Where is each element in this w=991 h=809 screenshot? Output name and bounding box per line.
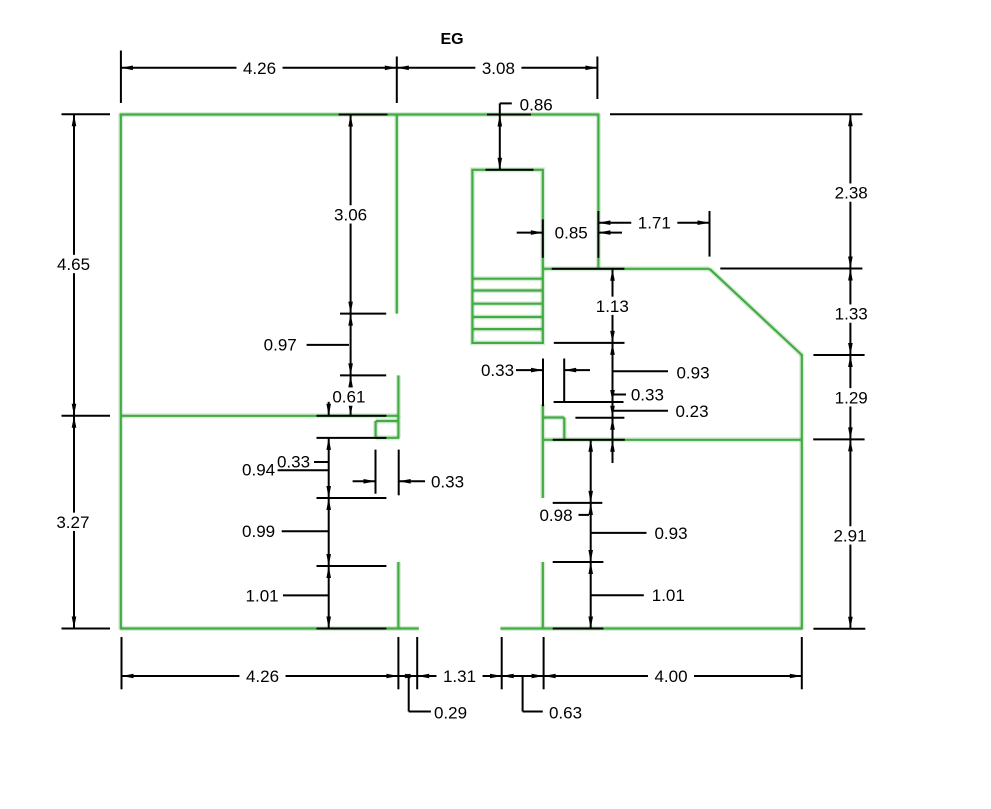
extension tick y=417.8: [575, 417, 624, 419]
svg-text:0.93: 0.93: [676, 364, 709, 383]
extension tick y=628.5 chain C (overlay): [553, 628, 604, 630]
label 0.29: [434, 704, 467, 723]
arrow 0.85 right: [598, 230, 622, 235]
svg-text:1.71: 1.71: [638, 214, 671, 233]
door jamb left: bottom edge: [376, 435, 400, 440]
svg-text:1.29: 1.29: [835, 388, 868, 407]
svg-text:0.99: 0.99: [242, 522, 275, 541]
extension tick y=313.6: [340, 313, 386, 315]
dimension line 0.94 segment: [326, 438, 331, 498]
dimension line 3.08 top: [397, 66, 598, 71]
leader 0.23 chain D: [613, 410, 669, 412]
dimension line 2.38 right: [848, 114, 853, 268]
label 0.33 door-left: [431, 472, 464, 491]
leader 0.94: [278, 469, 329, 471]
dimension line 2.91 right: [848, 439, 853, 628]
stairwell rectangle: [472, 170, 542, 343]
label 0.33 stair: [481, 361, 514, 380]
svg-text:0.33: 0.33: [631, 386, 664, 405]
label 0.23 chain D: [675, 402, 708, 421]
extension tick bottom (x=801.8): [801, 637, 803, 689]
extension tick left at y=114.2: [62, 113, 111, 115]
label 0.94: [242, 461, 275, 480]
svg-text:0.85: 0.85: [555, 224, 588, 243]
extension tick y=437.9: [317, 437, 387, 439]
dimension line 3.27 left: [72, 416, 77, 629]
label 1.31 bottom: [436, 667, 482, 686]
leader 0.97: [307, 344, 349, 346]
leader 0.93 chain C: [591, 532, 647, 534]
overlay tick y=439.8 chain D: [553, 439, 625, 441]
label 0.61: [326, 387, 372, 406]
dimension line 4.00 bottom: [544, 674, 802, 679]
svg-text:1.01: 1.01: [652, 586, 685, 605]
extension tick right at y=628.7: [813, 628, 865, 630]
extension tick right at y=355: [813, 354, 864, 356]
chain D small arrows 0.23: [610, 406, 615, 452]
svg-text:4.26: 4.26: [246, 667, 279, 686]
dimension line 1.13: [610, 269, 615, 343]
wall: corridor-left upper segment (x=396.8): [394, 115, 399, 314]
svg-text:4.65: 4.65: [57, 255, 90, 274]
label 1.13: [589, 297, 635, 316]
arrow pair 0.33 stair: [516, 368, 590, 373]
label 0.99: [242, 522, 275, 541]
svg-text:4.00: 4.00: [654, 667, 687, 686]
label 0.93 chain C: [654, 524, 687, 543]
svg-text:0.33: 0.33: [481, 361, 514, 380]
extension tick y=502.9: [553, 502, 603, 504]
overlay tick y=268.8 chain D: [552, 268, 625, 270]
svg-text:0.94: 0.94: [242, 461, 275, 480]
extension tick bottom (x=398.4): [397, 637, 399, 689]
dimension line 0.61: [348, 375, 353, 415]
svg-text:0.98: 0.98: [539, 506, 572, 525]
extension tick y=562: [553, 561, 604, 563]
leader 0.86: [500, 103, 512, 114]
vertical ext overlay x=598.4 (wall): [597, 211, 599, 258]
wall: corridor-right lower segment (x=542.8): [540, 562, 545, 629]
extension tick x=709.5: [709, 211, 711, 257]
label 0.97: [264, 336, 297, 355]
wall: bottom left-unit (y=628.5): [121, 626, 419, 631]
door jamb left: left edge: [373, 421, 378, 438]
label 3.06: [328, 205, 374, 224]
wall: outer right (x=801.8): [799, 354, 804, 630]
svg-text:0.93: 0.93: [654, 524, 687, 543]
label 2.91: [827, 526, 873, 545]
overlay tick on top wall chain A: [339, 114, 388, 116]
leader 0.33 chain D: [613, 394, 627, 396]
label 0.98: [539, 506, 572, 525]
label 1.29: [828, 388, 874, 407]
wall: diagonal corner: [710, 269, 802, 355]
door jamb left: right edge: [396, 416, 401, 438]
label 2.38: [828, 183, 874, 202]
extension tick y=566: [317, 565, 387, 567]
svg-text:0.63: 0.63: [549, 704, 582, 723]
extension tick y=628.5 chain B (overlay): [317, 628, 387, 630]
vertical ext overlay x=542.8 (stair edge): [542, 219, 544, 257]
door jamb right: top edge: [543, 415, 565, 420]
leader 1.01 left: [283, 594, 329, 596]
vertical ext tick x=543: [542, 359, 544, 407]
svg-text:0.61: 0.61: [332, 388, 365, 407]
vertical ext tick x=398.7: [398, 450, 400, 496]
extension tick top-left (x=120.9): [120, 51, 122, 104]
extension tick left at y=628.5: [62, 628, 111, 630]
svg-text:1.33: 1.33: [835, 305, 868, 324]
leader 0.29: [409, 677, 431, 712]
extension line right at y=268.5: [720, 268, 862, 270]
extension line right at y=114.2: [610, 113, 862, 115]
svg-text:4.26: 4.26: [243, 59, 276, 78]
label 3.08 top: [475, 59, 521, 78]
dimension line 0.99 segment: [326, 498, 331, 566]
wall: right-unit top horizontal (y=439.8): [543, 437, 802, 442]
label 4.00 bottom: [648, 667, 694, 686]
chain D small arrows 0.33: [610, 402, 615, 463]
label 0.93 chain D: [676, 364, 709, 383]
svg-text:0.97: 0.97: [264, 336, 297, 355]
dimension line 4.65 left: [72, 114, 77, 416]
label 3.27: [50, 513, 96, 532]
arrow pair 0.33 door-left: [353, 479, 425, 484]
wall: outer top (y=114.5, x 120.8-598.4): [120, 112, 600, 117]
dimension line 1.01 segment chain C: [588, 562, 593, 629]
extension tick top-mid (x=396.8): [396, 57, 398, 104]
wall: interior left-unit horizontal (y=415.8): [121, 413, 399, 418]
label 4.65: [50, 255, 96, 274]
label 0.85: [555, 224, 588, 243]
dimension line 1.33 right: [848, 269, 853, 356]
label 4.26 bottom: [239, 667, 285, 686]
extension tick y=415.8 (chain A/B shared): [317, 415, 387, 417]
dimension line 0.93 segment chain D: [610, 343, 615, 402]
svg-text:1.13: 1.13: [596, 297, 629, 316]
dimension line 4.26 bottom: [122, 674, 399, 679]
wall: corridor-left lower segment (x=398.4): [396, 562, 401, 629]
extension tick y=402: [554, 401, 624, 403]
label 1.71: [631, 214, 677, 233]
overlay tick on top wall for 0.86: [487, 114, 531, 116]
svg-text:0.86: 0.86: [520, 95, 553, 114]
extension tick bottom (x=417.2): [416, 637, 418, 689]
dimension line 1.29 right: [848, 355, 853, 439]
extension tick bottom (x=501.7): [501, 637, 503, 689]
dimension line 1.01 segment: [326, 566, 331, 629]
svg-text:3.27: 3.27: [56, 513, 89, 532]
dimension line 1.71: [598, 220, 709, 225]
leader 0.98: [579, 514, 590, 516]
chain B outside arrow above wall: [326, 402, 331, 416]
dimension line 3.06: [348, 115, 353, 314]
label 1.33: [828, 304, 874, 323]
label 1.01 chain C: [652, 586, 685, 605]
svg-text:0.29: 0.29: [434, 704, 467, 723]
extension tick right at y=439.4: [813, 438, 864, 440]
dimension line 0.98 segment: [588, 440, 593, 503]
dimension line 0.93 segment chain C: [588, 503, 593, 562]
wall: outer left (x=120.8): [118, 114, 123, 630]
extension tick stair top (y=169.8): [486, 169, 534, 171]
svg-text:0.33: 0.33: [277, 453, 310, 472]
svg-text:2.91: 2.91: [833, 526, 866, 545]
extension tick top-right (x=597.4): [596, 57, 598, 100]
svg-text:3.06: 3.06: [334, 205, 367, 224]
dimension line 4.26 top: [121, 66, 397, 71]
svg-text:3.08: 3.08: [482, 59, 515, 78]
dim 0.63 inner arrows: [502, 674, 544, 679]
vertical ext tick x=564.2: [563, 359, 565, 404]
extension tick bottom (x=121.5): [121, 637, 123, 689]
svg-text:2.38: 2.38: [835, 184, 868, 203]
extension tick y=342.9: [554, 342, 625, 344]
svg-text:EG: EG: [440, 31, 463, 48]
svg-text:1.01: 1.01: [246, 586, 279, 605]
label 4.26 top: [236, 59, 282, 78]
leader 0.99: [282, 530, 329, 532]
dim 0.29 inner arrows: [398, 674, 417, 679]
svg-text:1.31: 1.31: [443, 667, 476, 686]
label 0.33 left-chain: [277, 453, 310, 472]
leader 0.93 chain D: [613, 370, 669, 372]
stair treads (5 lines): [472, 279, 542, 329]
wall: corridor-left mid segment (x=398.4): [396, 375, 401, 417]
extension tick bottom (x=543.6): [543, 637, 545, 689]
label 0.33 chain D: [631, 386, 664, 405]
wall: corridor-right upper segment (x=542.8): [540, 404, 545, 498]
label 0.63: [549, 704, 582, 723]
extension tick y=498: [317, 497, 387, 499]
arrow 0.85 left: [517, 230, 543, 235]
door jamb right: right edge: [562, 418, 567, 440]
wall: bottom right-unit (y=628.5): [500, 626, 801, 631]
title EG: [440, 31, 463, 48]
svg-text:0.23: 0.23: [675, 402, 708, 421]
leader 1.01 chain C: [591, 594, 644, 596]
svg-text:0.33: 0.33: [431, 472, 464, 491]
vertical ext tick x=375.5: [375, 450, 377, 494]
extension tick left at y=415.8: [62, 415, 111, 417]
wall: right of stair vertical (x=598.4): [596, 114, 601, 269]
extension tick y=375.4: [340, 374, 386, 376]
dimension line 1.31 bottom: [417, 674, 502, 679]
dimension line 0.97: [348, 314, 353, 376]
dimension line 0.86 vertical: [498, 115, 503, 170]
leader 0.33 left-chain: [314, 461, 329, 463]
leader 0.63: [523, 677, 543, 712]
wall: stair-bottom horizontal to right (y=268.8): [543, 266, 710, 271]
door jamb left: top edge: [376, 419, 399, 424]
label 0.86: [520, 95, 553, 114]
label 1.01 left: [246, 586, 279, 605]
